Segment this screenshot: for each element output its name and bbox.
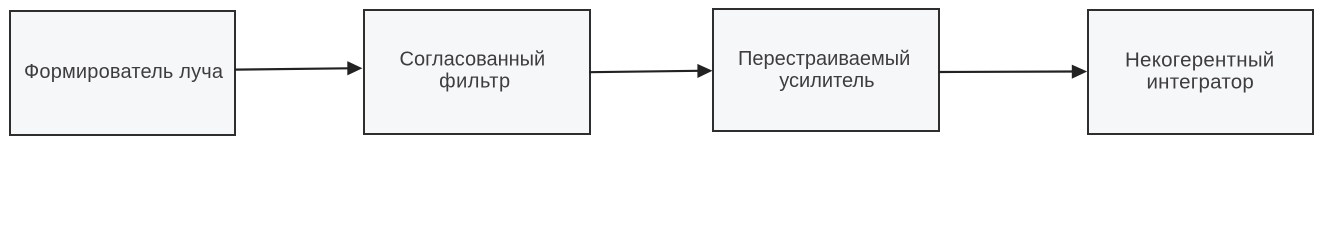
box: Формирователь луча <box>9 10 236 136</box>
arrows <box>0 0 1322 145</box>
box: Перестраиваемый усилитель <box>712 8 940 132</box>
arrow 1: box1 -> box2 <box>235 61 362 75</box>
box: Некогерентный интегратор <box>1087 9 1314 135</box>
arrow 3: box3 -> box4 <box>939 65 1087 79</box>
arrow 2: box2 -> box3 <box>589 64 713 78</box>
box: Согласованный фильтр <box>363 9 591 135</box>
